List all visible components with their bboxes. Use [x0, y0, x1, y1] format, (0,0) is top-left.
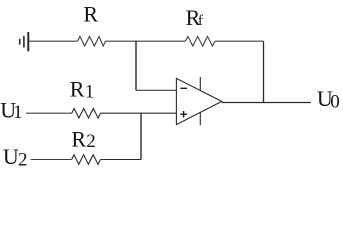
wire node B vertical — [140, 113, 142, 159]
svg-text:1: 1 — [13, 102, 23, 123]
node A junction — [135, 41, 136, 42]
wire R1 to op-amp plus input — [101, 112, 177, 114]
svg-text:1: 1 — [85, 81, 95, 102]
minus sign at inverting input — [181, 87, 188, 89]
resistor Rf — [185, 36, 215, 46]
op-amp positive supply pin — [199, 77, 201, 91]
op-amp U1 triangle — [176, 78, 221, 124]
wire Rf to right corner — [215, 40, 264, 42]
wire to op-amp minus input — [136, 89, 176, 91]
svg-text:f: f — [198, 13, 203, 29]
svg-text:R: R — [83, 2, 98, 27]
resistor R1 — [72, 108, 101, 118]
resistor R — [78, 36, 106, 46]
wire node A to Rf — [136, 40, 185, 42]
svg-text:R: R — [71, 126, 86, 151]
svg-text:2: 2 — [18, 150, 28, 171]
wire U1 to R1 — [26, 112, 72, 114]
op-amp negative supply pin — [199, 112, 201, 125]
wire R2 to node B — [100, 159, 141, 161]
ground — [20, 32, 29, 51]
svg-text:U: U — [3, 144, 19, 169]
wire U2 to R2 — [31, 159, 72, 161]
wire ground to R — [28, 40, 77, 42]
wire feedback vertical — [263, 41, 265, 102]
wire node A down to inverting input — [135, 41, 137, 90]
svg-text:0: 0 — [330, 91, 340, 112]
svg-text:2: 2 — [86, 131, 96, 152]
node B junction — [140, 113, 141, 114]
resistor R2 — [72, 155, 101, 165]
svg-text:R: R — [70, 76, 85, 101]
plus sign at non-inverting input — [180, 111, 187, 118]
output wire to U0 — [222, 102, 311, 104]
wire R to node A — [106, 40, 137, 42]
